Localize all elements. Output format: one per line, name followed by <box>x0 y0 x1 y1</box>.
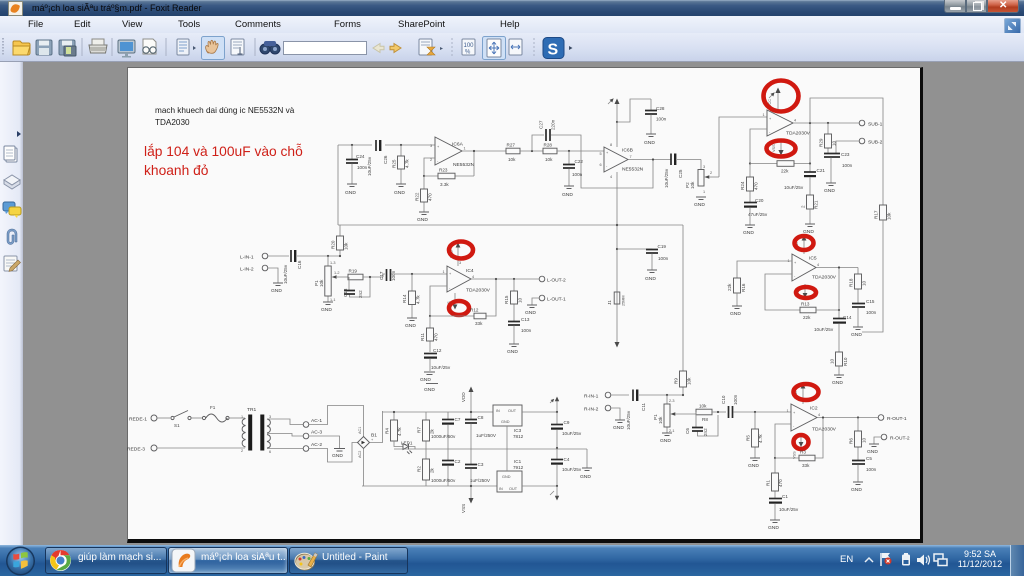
node junction mid rail right <box>556 447 558 449</box>
bridge rectifier B1 <box>358 427 378 458</box>
capacitor C22 <box>563 151 583 186</box>
svg-text:4: 4 <box>610 175 612 179</box>
svg-text:C13: C13 <box>521 317 530 322</box>
svg-text:R18: R18 <box>849 278 854 287</box>
svg-text:R11: R11 <box>420 332 425 341</box>
svg-text:-: - <box>449 286 451 290</box>
wire IC1 out <box>522 485 557 487</box>
svg-text:+: + <box>449 272 452 276</box>
resistor R12 <box>430 279 496 326</box>
ground below C1 <box>768 520 780 531</box>
svg-text:GND: GND <box>743 230 754 236</box>
wire IC6A inverting input <box>424 158 435 176</box>
svg-text:1uF/250V: 1uF/250V <box>470 478 491 483</box>
svg-text:GND: GND <box>417 217 428 223</box>
svg-text:VSS: VSS <box>772 144 776 152</box>
svg-text:10: 10 <box>862 437 867 443</box>
resistor R27 <box>506 143 520 163</box>
svg-text:8: 8 <box>610 143 612 147</box>
svg-text:C23: C23 <box>841 152 850 157</box>
svg-text:GND: GND <box>824 188 835 194</box>
resistor R1 <box>766 458 784 498</box>
svg-text:S1: S1 <box>174 423 180 428</box>
svg-text:C2: C2 <box>455 459 461 464</box>
capacitor C23 <box>824 152 853 183</box>
svg-text:R4: R4 <box>385 428 390 434</box>
svg-text:10uF/25v: 10uF/25v <box>814 327 834 332</box>
svg-text:C4: C4 <box>564 457 570 462</box>
svg-text:REDE-1: REDE-1 <box>129 417 147 423</box>
wire SUB output <box>793 122 859 124</box>
svg-text:GND: GND <box>345 190 356 196</box>
resistor R24 <box>740 164 759 203</box>
resistor R9 <box>674 225 692 395</box>
svg-text:10uF/25v: 10uF/25v <box>779 507 799 512</box>
svg-text:R24: R24 <box>740 181 745 190</box>
svg-text:IC4: IC4 <box>466 268 474 274</box>
ground below C23 <box>824 183 836 194</box>
svg-text:470: 470 <box>428 193 433 201</box>
svg-text:GND: GND <box>832 380 843 386</box>
resistor R20 <box>331 225 349 256</box>
svg-text:2k: 2k <box>430 467 435 473</box>
node junction IC5 out <box>838 266 840 268</box>
ground below R5 <box>748 458 760 469</box>
capacitor C18 parallel loop <box>343 277 370 298</box>
wire IC4 output <box>471 278 539 280</box>
svg-text:C20: C20 <box>755 198 764 203</box>
svg-text:GND: GND <box>424 387 435 393</box>
power VSS pin arrow IC4 <box>447 293 457 310</box>
svg-text:1: 1 <box>464 147 466 151</box>
node junction C21 tap <box>809 162 811 164</box>
svg-text:OUT: OUT <box>509 487 518 491</box>
svg-text:2: 2 <box>710 171 712 175</box>
svg-text:10k: 10k <box>545 157 553 162</box>
svg-text:GND: GND <box>768 525 779 531</box>
resistor R3 <box>775 418 823 469</box>
red annotation circle IC2 VDD <box>794 384 819 400</box>
wire R27 to R28 <box>520 150 543 152</box>
node junction C6 right <box>717 411 719 413</box>
svg-text:R5: R5 <box>746 435 751 441</box>
svg-text:1: 1 <box>443 270 445 274</box>
svg-text:SUB-2: SUB-2 <box>868 140 883 146</box>
wire R17 down rail <box>862 220 883 332</box>
node junction R5 tap <box>754 411 756 413</box>
svg-text:4: 4 <box>818 413 820 417</box>
svg-text:R13: R13 <box>801 302 810 307</box>
capacitor C15 <box>852 299 877 327</box>
svg-text:+: + <box>371 438 374 442</box>
svg-text:GND: GND <box>867 449 878 455</box>
jumper J1 25MM <box>607 292 626 306</box>
wire L-OUT-1 to ground <box>532 298 539 305</box>
svg-text:R15: R15 <box>504 295 509 304</box>
svg-text:GND: GND <box>321 307 332 313</box>
svg-text:C22: C22 <box>575 159 584 164</box>
node junction C24 tap <box>351 144 353 146</box>
svg-text:L-IN-2: L-IN-2 <box>240 267 254 273</box>
node junction R13 riser <box>838 309 840 311</box>
power VSS pin arrow IC5 <box>796 284 807 298</box>
resistor R19 <box>348 269 363 280</box>
svg-text:GND: GND <box>851 487 862 493</box>
power VSS arrow <box>461 486 474 513</box>
svg-text:R7: R7 <box>417 427 422 433</box>
svg-text:47uF/25v: 47uF/25v <box>748 212 768 217</box>
svg-text:TDA2030: TDA2030 <box>155 118 190 127</box>
op-amp IC6B <box>600 143 644 179</box>
node junction C9 top <box>556 411 558 413</box>
svg-text:C16: C16 <box>297 260 302 269</box>
resistor R28 <box>543 143 557 163</box>
svg-text:10: 10 <box>518 297 523 303</box>
svg-text:10uF/25v: 10uF/25v <box>367 156 372 176</box>
svg-text:AC-1: AC-1 <box>311 418 322 424</box>
svg-text:6: 6 <box>269 450 271 454</box>
svg-text:R27: R27 <box>507 143 516 148</box>
capacitor C12 <box>424 348 451 371</box>
node junction R3 top <box>822 416 824 418</box>
resistor R18 <box>849 268 867 304</box>
node junction R9 bottom <box>682 394 684 396</box>
wire L-IN-2 to ground <box>268 268 278 283</box>
node junction R20 bottom <box>339 255 341 257</box>
svg-text:VSS: VSS <box>461 504 466 513</box>
connector L-IN-2 <box>240 265 268 272</box>
svg-text:LED1: LED1 <box>401 441 413 446</box>
svg-text:100n: 100n <box>658 256 669 261</box>
svg-text:10k: 10k <box>887 212 892 220</box>
resistor R7 <box>417 412 435 449</box>
svg-text:REDE-3: REDE-3 <box>127 447 145 453</box>
svg-text:1-2: 1-2 <box>334 271 340 275</box>
power minus arrow right <box>550 486 559 501</box>
connector REDE-1 <box>129 415 157 423</box>
svg-text:10: 10 <box>862 280 867 286</box>
node junction output-feedback <box>473 150 475 152</box>
svg-text:GND: GND <box>394 190 405 196</box>
svg-text:R25: R25 <box>392 159 397 168</box>
svg-text:+: + <box>606 151 609 155</box>
svg-text:100n: 100n <box>866 467 877 472</box>
ground below pot P1R <box>660 433 672 444</box>
svg-text:NE5532N: NE5532N <box>453 162 475 168</box>
svg-text:C21: C21 <box>817 168 826 173</box>
wire C10 to IC2 <box>734 411 792 413</box>
svg-text:AC2: AC2 <box>358 451 362 458</box>
svg-text:C25: C25 <box>678 169 683 178</box>
svg-text:GND: GND <box>694 202 705 208</box>
red annotation circle IC5 VDD <box>795 236 814 250</box>
capacitor C1 <box>769 494 799 520</box>
svg-text:3: 3 <box>459 261 461 265</box>
svg-text:3.3k: 3.3k <box>440 182 449 187</box>
svg-text:7812: 7812 <box>513 434 524 439</box>
wire top supply rail <box>383 411 494 412</box>
wire secondary taps to AC connectors <box>267 419 303 449</box>
svg-text:10uF/25v: 10uF/25v <box>562 467 582 472</box>
svg-text:lắp 104 và 100uF vào chỗ: lắp 104 và 100uF vào chỗ <box>144 143 303 159</box>
svg-text:L-IN-1: L-IN-1 <box>240 255 254 261</box>
svg-text:C19: C19 <box>658 244 667 249</box>
svg-text:GND: GND <box>271 288 282 294</box>
capacitor C11 <box>626 390 646 431</box>
svg-text:TR1: TR1 <box>247 407 257 413</box>
resistor R15 <box>504 279 523 321</box>
svg-text:R9: R9 <box>674 378 679 384</box>
svg-text:IN: IN <box>496 409 500 413</box>
svg-text:GND: GND <box>562 192 573 198</box>
regulator IC3 7812 <box>493 405 524 449</box>
svg-text:1: 1 <box>763 113 765 117</box>
svg-text:GND: GND <box>580 474 591 480</box>
svg-text:22k: 22k <box>803 315 811 320</box>
svg-text:3: 3 <box>703 165 705 169</box>
power amp IC2 <box>787 404 837 433</box>
svg-text:10k: 10k <box>319 279 324 287</box>
svg-text:R20: R20 <box>331 240 336 249</box>
svg-text:C3: C3 <box>478 462 484 467</box>
node junction IC2 feedback <box>774 457 776 459</box>
wire mid zero-volt rail <box>394 448 587 450</box>
ground below C15 <box>851 327 863 338</box>
red annotation circle SUB VSS <box>767 141 796 157</box>
svg-text:C27: C27 <box>539 120 544 129</box>
wire IC6B power rail down <box>616 122 618 344</box>
svg-text:+: + <box>794 261 797 265</box>
svg-text:R10: R10 <box>843 357 848 366</box>
node junction C22 tap <box>568 150 570 152</box>
node junction VSS rail <box>470 485 472 487</box>
ground below R10 <box>832 375 844 386</box>
svg-text:VDD: VDD <box>461 392 466 402</box>
svg-text:C1: C1 <box>782 494 788 499</box>
node junction SUB out riser <box>809 122 811 124</box>
svg-text:1-1: 1-1 <box>330 298 336 302</box>
connector REDE-3 <box>127 445 157 453</box>
svg-text:C5: C5 <box>866 456 872 461</box>
svg-text:C10: C10 <box>721 395 726 404</box>
capacitor C25 <box>664 154 683 189</box>
svg-text:IC3: IC3 <box>514 428 522 433</box>
svg-text:GND: GND <box>502 475 511 479</box>
svg-text:GND: GND <box>420 377 431 383</box>
svg-text:6: 6 <box>600 163 602 167</box>
svg-text:1000uF/50v: 1000uF/50v <box>431 478 456 483</box>
svg-text:GND: GND <box>525 310 536 316</box>
svg-text:AC1: AC1 <box>358 427 362 434</box>
red annotation circle SUB VCC <box>764 81 799 112</box>
potentiometer P1 right channel <box>653 395 696 433</box>
svg-text:GND: GND <box>644 140 655 146</box>
resistor R5 <box>746 412 764 458</box>
svg-text:R19: R19 <box>349 269 358 274</box>
svg-text:GND: GND <box>332 453 343 459</box>
svg-text:F1: F1 <box>210 405 216 410</box>
svg-text:IC6A: IC6A <box>452 142 464 148</box>
ground below C28 <box>644 134 656 146</box>
svg-text:R-IN-2: R-IN-2 <box>584 407 599 413</box>
svg-text:470: 470 <box>778 479 783 487</box>
wire bottom supply rail <box>362 485 497 487</box>
svg-text:C17: C17 <box>379 271 384 280</box>
svg-text:NE5532N: NE5532N <box>622 167 644 173</box>
capacitor C4 <box>551 448 582 486</box>
connector AC-1 <box>303 418 322 427</box>
svg-text:L-OUT-2: L-OUT-2 <box>547 278 566 284</box>
svg-text:1: 1 <box>787 409 789 413</box>
capacitor C2 <box>431 449 461 486</box>
resistor R11 <box>420 316 439 352</box>
ground below R-IN-2 <box>613 420 625 431</box>
wire IC5 output <box>816 268 858 311</box>
capacitor C7 <box>431 412 461 449</box>
wire IC2 inverting input <box>775 424 791 458</box>
capacitor C24 <box>346 145 368 184</box>
wire REDE-3 to transformer <box>157 447 245 449</box>
switch S1 <box>157 411 191 429</box>
potentiometer P2 <box>685 165 719 194</box>
potentiometer P1 left channel <box>314 256 348 302</box>
svg-text:-: - <box>793 424 795 428</box>
svg-text:SUB-1: SUB-1 <box>868 122 883 128</box>
svg-text:4.7k: 4.7k <box>397 427 402 436</box>
power amp IC5 <box>788 254 837 281</box>
svg-text:1000uF/50v: 1000uF/50v <box>431 434 456 439</box>
capacitor C8 <box>465 412 497 449</box>
wire R-OUT-2 to ground <box>874 437 881 444</box>
svg-text:2-1: 2-1 <box>669 429 675 433</box>
ground below R21 <box>803 224 815 235</box>
svg-text:R29: R29 <box>819 138 824 147</box>
node junction VDD rail <box>470 411 472 413</box>
node junction pot P1R top <box>666 394 668 396</box>
svg-text:+: + <box>769 117 772 121</box>
ground below C12 <box>420 372 435 383</box>
node junction R19-C18 right <box>369 276 371 278</box>
svg-text:1uF/250V: 1uF/250V <box>476 433 497 438</box>
svg-text:OUT: OUT <box>508 409 517 413</box>
svg-text:C15: C15 <box>866 299 875 304</box>
connector L-IN-1 <box>240 253 268 260</box>
svg-text:C14: C14 <box>843 315 852 320</box>
fuse F1 <box>191 405 245 422</box>
ground below C13 <box>507 344 519 355</box>
svg-text:GND: GND <box>501 420 510 424</box>
svg-text:+: + <box>793 411 796 415</box>
svg-text:470: 470 <box>434 333 439 341</box>
svg-text:J1: J1 <box>607 300 612 305</box>
connector R-IN-2 <box>584 405 611 412</box>
power VCC pin arrow SUB amp <box>768 88 781 111</box>
svg-text:R8: R8 <box>702 417 708 422</box>
svg-text:R17: R17 <box>874 210 879 219</box>
resistor R23 <box>424 151 474 187</box>
ground below C20 <box>743 225 755 236</box>
resistor R25 <box>392 145 410 184</box>
svg-text:IN: IN <box>499 487 503 491</box>
power VDD pin arrow IC5 <box>795 236 806 255</box>
connector R-OUT-1 <box>878 415 907 422</box>
svg-text:2: 2 <box>241 449 243 453</box>
svg-text:10uF/25v: 10uF/25v <box>431 365 451 370</box>
svg-text:C7: C7 <box>455 417 461 422</box>
capacitor C19 <box>617 244 669 270</box>
capacitor C20 <box>744 198 768 225</box>
svg-text:IC1: IC1 <box>514 459 522 464</box>
svg-text:+: + <box>437 145 440 149</box>
svg-text:10k: 10k <box>687 377 692 385</box>
svg-text:10uF/25v: 10uF/25v <box>283 264 288 284</box>
svg-text:R21: R21 <box>814 200 819 209</box>
op-amp IC6A <box>430 137 475 168</box>
svg-text:-: - <box>606 164 608 168</box>
svg-text:10uF/25v: 10uF/25v <box>626 410 631 430</box>
svg-text:R3: R3 <box>800 450 806 455</box>
node junction IC4 feedback <box>429 315 431 317</box>
svg-text:100n: 100n <box>656 117 667 122</box>
node junction bus-IC6B rail <box>616 224 618 226</box>
resistor R6 <box>849 418 867 461</box>
svg-text:GND: GND <box>748 463 759 469</box>
svg-text:100n: 100n <box>521 328 532 333</box>
svg-text:GND: GND <box>851 332 862 338</box>
svg-text:C26: C26 <box>383 155 388 164</box>
ground mid rail right <box>580 468 592 480</box>
power VDD pin arrow IC2 <box>794 384 805 405</box>
regulator IC1 7912 <box>497 449 524 492</box>
wire C17 to IC4 <box>392 273 448 275</box>
connector AC-2 <box>303 442 322 451</box>
capacitor C28 <box>645 99 667 134</box>
power VCC arrow above IC6B <box>608 99 620 123</box>
svg-text:TDA2030V: TDA2030V <box>466 288 491 294</box>
resistor R2 <box>417 449 435 486</box>
svg-text:100n: 100n <box>842 163 853 168</box>
transformer TR1 <box>241 407 271 454</box>
wire SUB out top riser <box>810 98 883 205</box>
svg-text:4: 4 <box>472 275 474 279</box>
svg-text:10k: 10k <box>508 157 516 162</box>
svg-text:C28: C28 <box>656 106 665 111</box>
node junction R6 tap <box>857 416 859 418</box>
svg-text:-: - <box>794 274 796 278</box>
svg-text:5: 5 <box>600 152 602 156</box>
wire IC4 inverting input <box>430 286 447 316</box>
wire R-IN-1 to C11 <box>611 394 629 396</box>
node junction output feedback <box>495 278 497 280</box>
svg-text:IC2: IC2 <box>810 406 818 412</box>
svg-text:GND: GND <box>613 425 624 431</box>
svg-text:GND: GND <box>660 438 671 444</box>
svg-text:2-3: 2-3 <box>669 399 675 403</box>
svg-text:1: 1 <box>703 190 705 194</box>
power VSS pin arrow IC2 <box>793 434 804 459</box>
red annotation circle IC4 VDD <box>449 242 473 259</box>
svg-text:IC5: IC5 <box>809 256 817 262</box>
svg-text:R-IN-1: R-IN-1 <box>584 394 599 400</box>
capacitor C3 <box>465 449 491 486</box>
ground below R16 <box>730 306 742 317</box>
capacitor C5 <box>852 456 877 482</box>
svg-text:7: 7 <box>630 155 632 159</box>
svg-text:khoanh đỏ: khoanh đỏ <box>144 163 209 178</box>
svg-text:C9: C9 <box>564 420 570 425</box>
svg-text:R6: R6 <box>849 438 854 444</box>
connector SUB-1 <box>859 120 882 127</box>
